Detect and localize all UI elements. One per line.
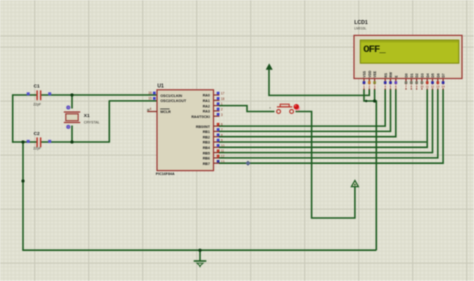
svg-text:D6: D6 — [436, 73, 440, 77]
svg-text:D2: D2 — [415, 73, 419, 77]
pin OSC2/CLKOUT label — [160, 99, 187, 103]
label LM016L — [354, 26, 366, 30]
LCD pin D1 label — [410, 73, 414, 77]
wire VEE to ground — [374, 89, 376, 101]
svg-text:RW: RW — [389, 71, 393, 77]
LCD pin VDD label — [368, 70, 372, 78]
button (push switch) — [277, 104, 294, 113]
button red actuator — [294, 104, 301, 111]
LCD pin VDD stub pin 2 — [367, 79, 371, 90]
pin RB3 stub pin 9 — [214, 139, 223, 143]
op-amp U1 body (PIC16F84A) — [157, 90, 214, 171]
svg-text:22pF: 22pF — [33, 103, 41, 107]
pin RB6 label — [203, 157, 210, 161]
LCD pin RS stub pin 4 — [383, 79, 387, 90]
pin 15 OSC2 — [148, 97, 155, 101]
svg-text:CRYSTAL: CRYSTAL — [84, 120, 100, 124]
LCD pin E stub pin 6 — [394, 79, 398, 90]
svg-text:*: * — [269, 106, 271, 111]
power +5V arrow (button pull-up) — [351, 181, 358, 187]
svg-text:D5: D5 — [431, 73, 435, 77]
LCD LCD1 body (LM016L) — [354, 35, 462, 78]
LCD pin D2 label — [415, 73, 419, 77]
pin RB0/INT stub pin 6 — [214, 123, 223, 127]
node marker on RB7 wire — [246, 161, 251, 166]
pin RB5 label — [203, 151, 210, 155]
LCD pin VSS stub pin 1 — [362, 79, 366, 90]
LCD pin D7 stub pin 14 — [441, 79, 445, 90]
wire ground rail — [22, 249, 376, 251]
pin RA0 label — [203, 94, 210, 98]
LCD pin VEE label — [373, 70, 377, 77]
wire crystal bottom lead — [71, 126, 73, 143]
LCD text OFF_ — [363, 44, 386, 56]
value CRYSTAL — [84, 120, 100, 124]
pin RA1 label — [203, 99, 210, 103]
pin RB6 stub pin 12 — [214, 155, 225, 159]
svg-text:22pF: 22pF — [33, 147, 41, 151]
label PIC16F84A — [156, 172, 175, 176]
label U1 — [157, 84, 164, 90]
LCD pin RS label — [384, 72, 388, 77]
value C2 22pF — [33, 147, 41, 151]
pin RB4 stub pin 10 — [214, 144, 225, 148]
label LCD1 — [354, 20, 368, 26]
label X1 — [84, 113, 90, 119]
svg-text:11: 11 — [426, 85, 429, 89]
pin RB7 stub pin 13 — [214, 160, 225, 164]
svg-text:D3: D3 — [421, 73, 425, 77]
svg-text:RA0: RA0 — [203, 94, 210, 98]
pin RB1 stub pin 7 — [214, 128, 223, 132]
wire crystal top lead — [71, 95, 73, 109]
wire RB6 to LCD D6 — [219, 89, 438, 157]
node junction crystal-top — [70, 93, 73, 96]
svg-text:LM016L: LM016L — [354, 26, 366, 30]
crystal X1 pin state markers — [67, 106, 70, 129]
LCD pin D5 stub pin 12 — [431, 79, 435, 90]
svg-text:12: 12 — [431, 85, 435, 89]
pin RA1 stub pin 18 — [214, 97, 225, 101]
svg-text:RB3: RB3 — [203, 141, 210, 145]
svg-text:RA1: RA1 — [203, 99, 210, 103]
LCD pin D0 label — [405, 73, 409, 77]
svg-text:RB6: RB6 — [203, 157, 210, 161]
svg-text:RA3: RA3 — [203, 110, 210, 114]
capacitor C2 pin markers — [27, 140, 52, 143]
capacitor C2 plates — [37, 137, 41, 147]
wire VDD to +5V (LCD power) — [269, 69, 369, 95]
svg-text:RB1: RB1 — [203, 130, 210, 134]
pin RB1 label — [203, 130, 210, 134]
svg-text:U1: U1 — [157, 84, 164, 90]
wire C2 to OSC2 bottom segment — [40, 141, 109, 143]
value C1 22pF — [33, 103, 41, 107]
wire RB4 to LCD D4 — [219, 89, 427, 147]
svg-text:14: 14 — [441, 85, 445, 89]
svg-text:X1: X1 — [84, 113, 90, 119]
LCD pin RW label — [389, 71, 393, 77]
node junction ground tap — [198, 249, 201, 252]
pin RB5 stub pin 11 — [214, 149, 225, 153]
capacitor C1 pin markers — [27, 92, 52, 95]
LCD pin VSS label — [363, 70, 367, 77]
svg-text:OSC1/CLKIN: OSC1/CLKIN — [160, 94, 182, 98]
LCD pin VEE stub pin 3 — [373, 79, 377, 90]
capacitor C1 plates — [37, 90, 41, 100]
wire OSC1 net (C1 right plate to PIC OSC1/CLKIN) — [40, 94, 157, 96]
pin RB7 label — [203, 162, 210, 166]
wire RB1 to LCD RW — [219, 89, 391, 131]
pin RA2 label — [203, 104, 210, 108]
node junction crystal-bottom — [70, 140, 73, 143]
LCD pin D1 stub pin 8 — [409, 79, 413, 90]
svg-text:C1: C1 — [34, 84, 40, 90]
LCD pin D4 stub pin 11 — [425, 79, 429, 90]
pin RA3 stub pin 2 — [214, 108, 223, 112]
pin RB4 label — [203, 146, 210, 150]
svg-text:16: 16 — [148, 91, 152, 95]
wire RB3 — [219, 141, 426, 143]
svg-text:D4: D4 — [426, 73, 430, 77]
svg-text:OFF_: OFF_ — [363, 44, 386, 56]
pin RB3 label — [203, 141, 210, 145]
pin 16 OSC1 — [148, 91, 155, 95]
svg-text:VEE: VEE — [373, 70, 377, 77]
svg-text:RB4: RB4 — [203, 146, 210, 150]
svg-text:OSC2/CLKOUT: OSC2/CLKOUT — [160, 99, 187, 103]
pin RB2 stub pin 8 — [214, 133, 223, 137]
LCD screen — [360, 40, 459, 63]
LCD pin D3 label — [421, 73, 425, 77]
button origin marker — [269, 106, 271, 111]
pin RB0/INT label — [196, 125, 211, 129]
wire VSS to ground — [364, 89, 376, 250]
svg-text:RB5: RB5 — [203, 151, 210, 155]
svg-text:LCD1: LCD1 — [354, 20, 368, 26]
LCD pin D4 label — [426, 73, 430, 77]
node junction VEE-VSS — [365, 99, 376, 102]
svg-text:3: 3 — [221, 113, 223, 117]
pin RB2 label — [203, 135, 210, 139]
wire OSC2 riser — [109, 101, 158, 143]
svg-text:VSS: VSS — [363, 70, 367, 77]
label C1 — [34, 84, 40, 90]
svg-text:RA4/T0CKI: RA4/T0CKI — [191, 115, 210, 119]
svg-text:2: 2 — [221, 108, 223, 112]
svg-text:MCLR: MCLR — [160, 110, 171, 114]
pin OSC1/CLKIN label — [160, 94, 182, 98]
LCD pin D3 stub pin 10 — [420, 79, 424, 90]
pin MCLR label — [160, 109, 171, 114]
pin RA4/T0CKI stub pin 3 — [214, 113, 223, 117]
wire RB5 to LCD D5 — [219, 89, 433, 152]
LCD pin D7 label — [442, 73, 446, 77]
wire button to VCC riser — [296, 112, 355, 219]
svg-text:15: 15 — [148, 97, 152, 101]
svg-text:C2: C2 — [34, 131, 40, 137]
svg-text:PIC16F84A: PIC16F84A — [156, 172, 175, 176]
LCD pin D6 label — [436, 73, 440, 77]
power +5V arrow (LCD VDD) — [266, 63, 273, 69]
svg-text:D7: D7 — [442, 73, 446, 77]
pin 4 MCLR stub — [147, 107, 157, 111]
wire ground drop from C2 net — [22, 142, 24, 250]
node junction at C2 net tap — [21, 140, 24, 143]
LCD pin D2 stub pin 9 — [415, 79, 419, 90]
svg-text:RB7: RB7 — [203, 162, 210, 166]
crystal X1 body — [64, 112, 80, 123]
pin RA4/T0CKI label — [191, 115, 210, 119]
svg-text:D1: D1 — [410, 73, 414, 77]
svg-text:RS: RS — [384, 72, 388, 77]
LCD pin RW stub pin 5 — [389, 79, 393, 90]
LCD pin D5 label — [431, 73, 435, 77]
LCD pin D0 stub pin 7 — [404, 79, 408, 90]
svg-text:RB2: RB2 — [203, 135, 210, 139]
wire left rail (C1 left to C2 left) — [12, 94, 37, 142]
LCD pin E label — [394, 75, 398, 78]
svg-text:RA2: RA2 — [203, 104, 210, 108]
wire RB0 to LCD RS — [219, 89, 385, 126]
svg-text:4: 4 — [150, 107, 152, 111]
wire RA2 to button — [219, 106, 275, 112]
LCD pin D6 stub pin 13 — [436, 79, 440, 90]
svg-text:RB0/INT: RB0/INT — [196, 125, 211, 129]
svg-text:D0: D0 — [405, 73, 409, 77]
svg-text:17: 17 — [221, 92, 225, 96]
svg-text:18: 18 — [221, 97, 225, 101]
label C2 — [34, 131, 40, 137]
svg-text:VDD: VDD — [368, 70, 372, 78]
wire RB7 to LCD D7 — [219, 89, 443, 163]
wire RB2 to LCD E — [219, 89, 396, 136]
pin RA0 stub pin 17 — [214, 92, 225, 96]
pin RA2 stub pin 1 — [214, 102, 223, 106]
svg-text:13: 13 — [436, 85, 440, 89]
pin RA3 label — [203, 110, 210, 114]
svg-text:10: 10 — [420, 85, 424, 89]
ground — [194, 250, 207, 267]
node junction on ground drop — [21, 179, 24, 182]
